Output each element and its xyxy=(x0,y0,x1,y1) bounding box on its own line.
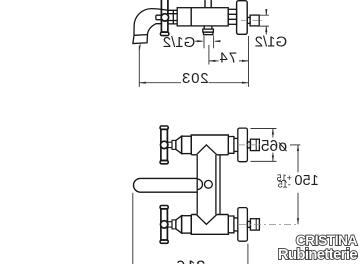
chevron top xyxy=(196,145,217,155)
spout inner curve xyxy=(147,24,161,35)
aerator ring 2 xyxy=(204,32,213,35)
hex adapter xyxy=(228,9,236,24)
ring xyxy=(172,220,176,229)
150 top bar xyxy=(290,144,300,146)
aerator G1/2 arrow left xyxy=(195,40,203,42)
G1/2 right: extension lines xyxy=(259,15,269,26)
spout body xyxy=(134,9,168,36)
216 extension right xyxy=(247,244,249,264)
svg-text:150: 150 xyxy=(294,173,318,189)
svg-text:ø65: ø65 xyxy=(261,138,288,155)
centerline xyxy=(241,20,264,22)
bottom valve assembly xyxy=(160,206,298,244)
column rear edge xyxy=(219,155,221,215)
svg-text:203: 203 xyxy=(181,70,208,87)
stem between spout and handle xyxy=(156,15,161,20)
handle bar top xyxy=(161,129,168,160)
arrowhead ø65 top xyxy=(272,129,274,135)
arrowhead 74 left xyxy=(209,60,216,62)
74 dimension line xyxy=(209,60,249,62)
ring 2 xyxy=(228,137,234,154)
arrowhead G1/2 right bottom xyxy=(265,26,267,32)
aerator ring xyxy=(203,29,214,32)
handle end cap lower xyxy=(160,240,168,243)
arrowhead 74 right xyxy=(242,60,249,62)
spout nose bulge xyxy=(197,179,202,190)
big cylinder (gap at chevron on bottom) xyxy=(191,135,228,155)
svg-text:G1/2: G1/2 xyxy=(255,33,288,50)
hub circle xyxy=(161,141,168,148)
spout tip xyxy=(133,35,148,44)
flange xyxy=(238,208,248,242)
handle bar bottom xyxy=(161,209,168,240)
ø65 extension top xyxy=(251,128,277,130)
centerline top valve xyxy=(239,144,265,146)
wall flange xyxy=(237,1,248,35)
spout leader line xyxy=(138,44,141,50)
arrowhead 150 top xyxy=(297,145,299,151)
chevron bottom xyxy=(196,215,217,225)
arrowhead aerator right xyxy=(214,40,221,42)
svg-text:Rubinetterie: Rubinetterie xyxy=(278,247,357,263)
hex facet lines xyxy=(228,14,236,19)
screw circle on column xyxy=(205,180,213,188)
column right edge xyxy=(215,155,217,215)
handle bar end cap xyxy=(161,32,169,36)
small cylinder xyxy=(182,136,192,153)
arrowhead 203 left xyxy=(139,82,146,84)
top outlet stub xyxy=(205,0,211,8)
arrowhead G1/2 right top xyxy=(265,9,267,15)
fitting neck xyxy=(247,17,250,23)
fitting block xyxy=(250,219,259,230)
spout pill xyxy=(134,178,198,192)
150 dimension line xyxy=(297,145,299,224)
203 dimension line xyxy=(139,82,248,84)
cone xyxy=(176,216,182,233)
ring xyxy=(172,140,176,149)
big cylinder (gap at chevron on top) xyxy=(191,215,228,235)
spout joint line xyxy=(134,34,148,37)
svg-text:G1/2: G1/2 xyxy=(163,34,196,51)
neck xyxy=(234,218,238,231)
flange xyxy=(238,128,248,162)
stem xyxy=(167,222,172,227)
wall extension line xyxy=(248,36,250,87)
handle hub circle xyxy=(161,14,168,21)
svg-text:-15: -15 xyxy=(278,180,291,190)
handle end cap upper xyxy=(160,126,168,129)
203 extension line left xyxy=(138,46,140,87)
cone xyxy=(176,136,182,153)
ø65 extension bottom xyxy=(251,160,277,162)
aerator G1/2 extension lines xyxy=(204,36,214,49)
arrowhead aerator left xyxy=(197,40,204,42)
centerline bottom valve xyxy=(239,223,298,225)
central column xyxy=(134,145,221,224)
arrowhead ø65 bottom xyxy=(272,155,274,161)
column left edge xyxy=(196,155,198,215)
216 extension left xyxy=(132,193,134,264)
74 extension line left xyxy=(208,45,210,65)
G1/2 male fitting xyxy=(250,15,259,26)
handle end cap lower xyxy=(160,161,168,164)
adapter rings xyxy=(168,10,177,24)
fitting joint xyxy=(255,139,257,150)
handle bar (cut at top) xyxy=(161,0,168,32)
neck xyxy=(234,138,238,151)
top valve assembly xyxy=(160,126,265,164)
stem xyxy=(167,142,172,147)
svg-text:216: 216 xyxy=(176,257,206,264)
body joint line xyxy=(190,8,192,26)
aerator neck xyxy=(204,26,212,29)
aerator G1/2 arrow right xyxy=(215,40,220,42)
ø65 dimension line xyxy=(272,129,274,162)
arrowhead 203 right xyxy=(242,82,249,84)
body cylinder xyxy=(177,8,228,26)
fitting block xyxy=(250,139,259,150)
svg-text:74: 74 xyxy=(218,49,237,66)
hub circle xyxy=(161,221,168,228)
arrowhead 150 bottom xyxy=(297,218,299,224)
fitting neck xyxy=(247,221,250,227)
small cylinder xyxy=(182,216,192,233)
handle end cap upper xyxy=(160,206,168,209)
ring 2 xyxy=(228,216,234,233)
G1/2 right: arrow tails xyxy=(265,9,267,35)
fitting neck xyxy=(247,142,250,148)
fitting joint xyxy=(255,219,257,230)
